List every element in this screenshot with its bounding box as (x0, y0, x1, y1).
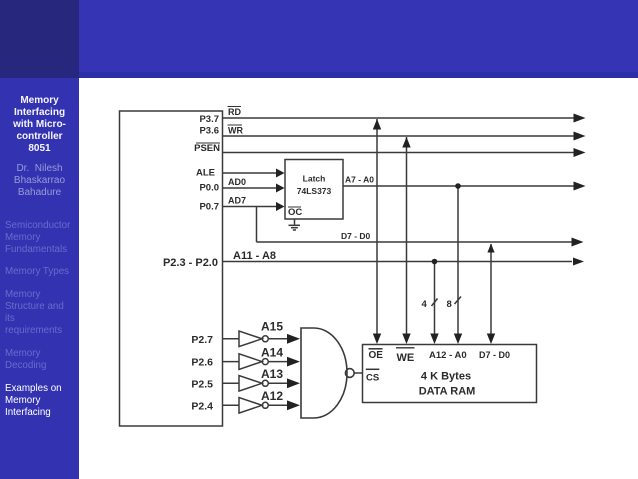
sidebar section 4 (5, 348, 79, 372)
sidebar author (0, 163, 79, 199)
svg-text:CS: CS (366, 373, 379, 384)
pin label PSEN (active low) (194, 143, 220, 154)
arrowhead WE down into RAM (402, 334, 410, 345)
RAM pin WE (active low) (396, 348, 415, 364)
svg-text:P3.6: P3.6 (199, 126, 219, 137)
RAM pin OE (active low) (369, 349, 384, 361)
wire A7-A0 (343, 185, 574, 187)
svg-text:A13: A13 (261, 367, 283, 381)
arrowhead OE down into RAM (373, 334, 381, 345)
wire PSEN (223, 152, 575, 154)
arrowhead D bus down into RAM (487, 334, 495, 345)
arrowhead A13 into NAND (287, 378, 300, 388)
sidebar section 3 (5, 289, 79, 337)
arrowhead A15 into NAND (287, 334, 300, 344)
NAND gate decoder (301, 328, 354, 418)
svg-text:RD: RD (228, 107, 241, 117)
wire NAND output to RAM CS (354, 372, 362, 374)
arrowhead A11-A8 right (573, 258, 584, 266)
wire AD7 tap down to D bus (256, 207, 258, 243)
svg-text:P2.5: P2.5 (191, 379, 213, 391)
svg-text:DATA RAM: DATA RAM (419, 386, 476, 398)
wire A11-A8 bus down to RAM (434, 262, 436, 340)
junction node on A7-A0 (455, 183, 461, 189)
inverter A15 (239, 331, 268, 347)
junction node on A11-A8 (432, 259, 438, 265)
svg-text:PSEN: PSEN (194, 143, 220, 154)
wire P2.7 to inverter (223, 338, 240, 340)
wire RD (223, 117, 575, 119)
svg-text:WE: WE (397, 352, 415, 364)
arrowhead D7-D0 right (572, 238, 584, 247)
svg-text:AD0: AD0 (228, 177, 246, 187)
svg-text:A15: A15 (261, 320, 283, 334)
wire inverter A15 to NAND (269, 338, 288, 340)
wire A11-A8 (223, 261, 573, 263)
wire WR (223, 135, 575, 137)
wire AD0 (223, 187, 279, 189)
svg-text:A12 - A0: A12 - A0 (429, 350, 467, 361)
arrowhead A14 into NAND (287, 357, 300, 367)
svg-text:OC: OC (288, 207, 302, 218)
bus width slash 4 (422, 299, 438, 311)
arrowhead AD7 into latch (276, 202, 285, 211)
latch pin OC (active low) (288, 207, 302, 218)
RAM 4K bytes box (363, 345, 537, 403)
wire AD7 (223, 206, 279, 208)
sidebar section 2 (5, 266, 79, 278)
arrowhead ALE into latch (276, 169, 285, 178)
arrowhead A7 bus down into RAM (454, 334, 462, 345)
bus width slash 8 (447, 297, 462, 311)
sidebar title (0, 95, 79, 155)
svg-text:P2.6: P2.6 (191, 357, 213, 369)
sidebar section 5 (active) (5, 383, 79, 419)
corner logo block (0, 0, 79, 78)
wire latch OC to ground (294, 219, 296, 225)
arrowhead PSEN right (574, 148, 586, 157)
sidebar section 1 (5, 220, 79, 256)
wire D bus vertical to RAM (490, 244, 492, 339)
latch U1 74LS373 box (285, 160, 343, 220)
svg-text:P0.0: P0.0 (199, 183, 219, 194)
net label WR (active low) (228, 125, 244, 136)
inverter A13 (239, 376, 268, 392)
svg-text:P2.3 - P2.0: P2.3 - P2.0 (163, 257, 218, 269)
wire P2.4 to inverter (223, 404, 240, 406)
svg-text:4 K Bytes: 4 K Bytes (421, 371, 471, 383)
RAM pin CS (active low) (366, 369, 380, 383)
wire inverter A13 to NAND (269, 382, 288, 384)
svg-text:ALE: ALE (196, 168, 215, 179)
wire WE vertical (406, 137, 408, 339)
svg-text:AD7: AD7 (228, 196, 246, 206)
wire OE vertical (376, 119, 378, 339)
svg-text:P3.7: P3.7 (199, 114, 219, 125)
net label RD (active low) (228, 107, 242, 118)
latch label (297, 174, 332, 197)
wire D7-D0 (257, 241, 573, 243)
svg-text:8: 8 (447, 299, 452, 310)
svg-text:D7 - D0: D7 - D0 (479, 350, 510, 360)
microcontroller 8051 block (120, 111, 223, 426)
svg-text:WR: WR (228, 126, 243, 136)
svg-text:D7 - D0: D7 - D0 (341, 231, 371, 241)
svg-text:OE: OE (369, 350, 384, 361)
inverter A12 (239, 398, 268, 414)
arrowhead AD0 into latch (276, 184, 285, 193)
svg-text:4: 4 (422, 299, 428, 310)
arrowhead WR right (574, 132, 586, 141)
wire ALE to latch (223, 172, 279, 174)
svg-text:A12: A12 (261, 389, 283, 403)
sidebar background (0, 0, 79, 479)
header bar (79, 0, 638, 78)
wire inverter A12 to NAND (269, 404, 288, 406)
svg-text:Latch: Latch (303, 174, 326, 184)
svg-text:P0.7: P0.7 (199, 202, 219, 213)
svg-text:P2.4: P2.4 (191, 401, 213, 413)
wire P2.5 to inverter (223, 382, 240, 384)
inverter A14 (239, 354, 268, 370)
svg-text:A11 - A8: A11 - A8 (233, 250, 276, 262)
arrowhead A bus down into RAM (430, 334, 438, 345)
wire P2.6 to inverter (223, 361, 240, 363)
arrowhead A12 into NAND (287, 400, 300, 410)
wire A7-A0 bus down to RAM (457, 186, 459, 339)
svg-text:A14: A14 (261, 346, 283, 360)
svg-text:P2.7: P2.7 (191, 334, 213, 346)
arrowhead OE up at RD (373, 119, 381, 130)
arrowhead WE up at WR (402, 137, 410, 148)
svg-text:74LS373: 74LS373 (297, 186, 332, 196)
arrowhead D bus up at D7-D0 (487, 244, 494, 253)
ground (289, 225, 301, 230)
svg-text:A7 - A0: A7 - A0 (345, 175, 374, 185)
arrowhead A7-A0 right (574, 182, 586, 191)
wire inverter A14 to NAND (269, 361, 288, 363)
arrowhead RD right (574, 114, 586, 123)
